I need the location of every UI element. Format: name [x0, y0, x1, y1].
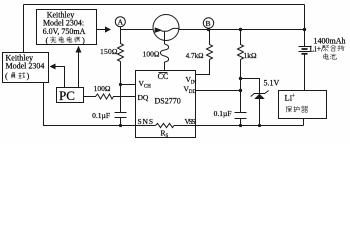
resistor R 1k	[238, 30, 244, 60]
svg-text:(: (	[5, 71, 8, 81]
wire PC to charger box with up arrow	[78, 53, 80, 88]
resistor R 4.7k	[207, 30, 213, 60]
node battery top dot	[303, 28, 306, 31]
wire stub B	[208, 28, 210, 29]
wire bottom ground rail right of Rs	[174, 125, 304, 127]
svg-text:150Ω: 150Ω	[100, 47, 118, 56]
svg-text:5.1V: 5.1V	[264, 79, 280, 88]
wire arrow from charger to node A	[97, 29, 106, 31]
wire 150ohm to VCH junction and down to cap	[120, 62, 122, 113]
transistor Q1 base bar	[162, 30, 168, 32]
protector box Li+	[279, 91, 327, 119]
transistor Q1 collector	[168, 28, 180, 31]
svg-text:VSS: VSS	[185, 117, 196, 126]
svg-text:DQ: DQ	[138, 93, 149, 102]
svg-text:100Ω: 100Ω	[94, 84, 111, 93]
transistor Q1 PNP circle	[153, 15, 179, 41]
svg-text:VCH: VCH	[139, 79, 152, 90]
transistor Q1 base lead down	[164, 31, 166, 44]
wire 4.7k to VIN pin	[196, 60, 210, 75]
wire battery top lead	[304, 30, 306, 47]
svg-text:1kΩ: 1kΩ	[244, 51, 258, 60]
resistor Rs sense	[156, 123, 175, 127]
transistor Q1 emitter arrow	[154, 27, 162, 33]
resistor R 150ohm	[118, 30, 124, 62]
IC U1 DS2770 box	[136, 71, 196, 138]
wire cap to ground rail	[120, 118, 122, 126]
svg-text:B: B	[205, 19, 210, 28]
svg-text:0.1µF: 0.1µF	[92, 111, 110, 120]
node 1k top dot	[239, 28, 242, 31]
node VCH junction dot	[119, 83, 122, 86]
wire battery bottom lead to protector box	[304, 54, 306, 91]
svg-text:): )	[27, 71, 30, 81]
svg-text:CC: CC	[158, 72, 169, 81]
wire base resistor to CC pin	[164, 62, 166, 71]
wire mid rail left segment	[121, 29, 154, 31]
svg-text:DS2770: DS2770	[155, 97, 181, 106]
charger box (Keithley Model 2304 charge source)	[37, 10, 97, 45]
wire protector bottom to rail	[303, 119, 305, 126]
svg-text:A: A	[118, 18, 124, 27]
svg-text:(: (	[46, 35, 49, 45]
wire 1k down through VDD to cap	[240, 60, 242, 113]
node VDD junction dot	[239, 89, 242, 92]
wire right drop from top rail to battery node	[304, 5, 306, 30]
svg-text:6.0V, 750mA: 6.0V, 750mA	[43, 27, 86, 36]
node cap-rail dot	[119, 124, 122, 127]
wire top rail	[24, 4, 305, 6]
capacitor C2 0.1uF plates	[235, 112, 247, 114]
capacitor C1 0.1uF plates	[115, 112, 127, 114]
svg-text:): )	[82, 35, 85, 45]
load box Keithley 2304	[3, 53, 49, 83]
battery BT1 plates	[299, 46, 311, 48]
wire PC to load box with left arrow	[56, 67, 65, 88]
svg-text:PC: PC	[59, 88, 75, 103]
svg-text:VDD: VDD	[184, 84, 197, 95]
svg-text:Li+/: Li+/	[310, 44, 325, 53]
wire zener branch	[241, 79, 260, 94]
wire VCH pin	[121, 84, 136, 86]
svg-text:100Ω: 100Ω	[143, 49, 160, 58]
wire cap2 to rail	[240, 119, 242, 126]
wire PC to DQ with 100ohm resistor	[84, 94, 136, 99]
wire stub A to mid wire	[120, 27, 122, 30]
wire VDD pin	[196, 90, 241, 92]
svg-text:4.7kΩ: 4.7kΩ	[186, 52, 204, 60]
zener D1 cathode bar with wings	[251, 91, 269, 97]
PC box	[57, 88, 84, 103]
node B meter circle	[203, 18, 213, 28]
wire bottom ground rail left of Rs	[44, 83, 156, 126]
node zener-rail dot	[258, 124, 261, 127]
resistor R 100ohm base	[160, 44, 168, 62]
node B dot	[207, 28, 210, 31]
svg-text:RS: RS	[161, 129, 169, 140]
wire mid rail right segment	[179, 29, 305, 31]
svg-text:SNS: SNS	[138, 117, 154, 126]
zener D1 triangle	[254, 94, 265, 99]
wire left drop from top rail to load box	[23, 5, 25, 53]
node cap2-rail dot	[239, 124, 242, 127]
svg-text:+: +	[292, 93, 296, 99]
node zener branch dot	[239, 77, 242, 80]
wire zener to rail	[259, 99, 261, 126]
node A meter circle	[115, 17, 125, 27]
svg-text:0.1µF: 0.1µF	[214, 109, 232, 118]
svg-text:Model 2304: Model 2304	[6, 62, 45, 71]
